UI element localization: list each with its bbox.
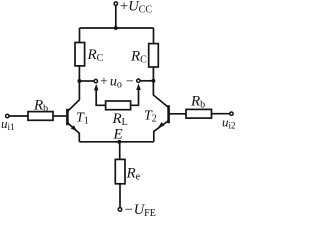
terminal -UFE <box>118 208 122 212</box>
resistor RC left <box>75 43 85 66</box>
svg-text:ui2: ui2 <box>222 115 236 131</box>
transistor T2 base bar <box>167 105 170 123</box>
wire uo- terminal to right collector node <box>140 80 153 82</box>
svg-text:+uo−: +uo− <box>100 74 134 90</box>
transistor T1 base bar <box>66 109 69 125</box>
wire RL left lead with arrow to uo+ <box>96 88 105 105</box>
terminal ui2 <box>230 112 233 115</box>
resistor Rb right <box>186 109 212 118</box>
terminal ui1 <box>6 114 9 117</box>
wire right RC bottom lead to T2 collector <box>153 67 168 107</box>
svg-text:Rb: Rb <box>33 98 48 115</box>
wire emitter rail E <box>79 141 154 143</box>
node left collector <box>77 79 81 83</box>
svg-text:Rb: Rb <box>190 94 205 111</box>
svg-text:Re: Re <box>126 166 141 183</box>
arrowhead RL left lead <box>94 84 99 91</box>
wire Rb left to T1 base <box>53 115 67 117</box>
terminal uo plus <box>94 79 97 82</box>
wire E node to Re <box>119 142 121 160</box>
wire ui1 to Rb left <box>9 115 28 117</box>
wire top rail <box>80 27 154 29</box>
resistor Re <box>115 159 125 183</box>
node right collector <box>151 79 155 83</box>
svg-text:RC: RC <box>130 49 147 66</box>
arrowhead RL right lead <box>136 84 141 91</box>
resistor Rb left <box>28 112 53 121</box>
svg-text:T1: T1 <box>76 111 89 127</box>
svg-text:−UFE: −UFE <box>125 202 156 218</box>
svg-text:T2: T2 <box>144 109 157 125</box>
wire Rb right to T2 base <box>170 113 187 115</box>
wire left RC bottom lead to T1 collector <box>68 66 79 111</box>
wire left RC top lead <box>79 28 81 43</box>
resistor RL <box>106 101 131 110</box>
wire RL right lead with arrow to uo- <box>131 88 139 106</box>
svg-text:RC: RC <box>87 47 104 64</box>
svg-text:+UCC: +UCC <box>120 0 152 16</box>
terminal +UCC <box>114 2 117 5</box>
svg-text:E: E <box>113 127 123 143</box>
wire UCC terminal to top rail <box>115 5 117 28</box>
resistor RC right <box>149 44 159 67</box>
node top rail junction <box>114 26 118 30</box>
wire ui2 to Rb right <box>212 113 230 115</box>
wire left collector node to uo+ terminal <box>79 80 94 82</box>
wire Re to UFE terminal <box>119 184 121 208</box>
arrowhead T2 emitter <box>158 122 164 127</box>
node E <box>117 140 121 144</box>
transistor T2 emitter with arrow <box>154 121 168 142</box>
arrowhead T1 emitter <box>71 125 77 131</box>
wire right RC top lead <box>153 28 155 44</box>
transistor T1 emitter with arrow <box>68 123 79 142</box>
terminal uo minus <box>137 79 140 82</box>
